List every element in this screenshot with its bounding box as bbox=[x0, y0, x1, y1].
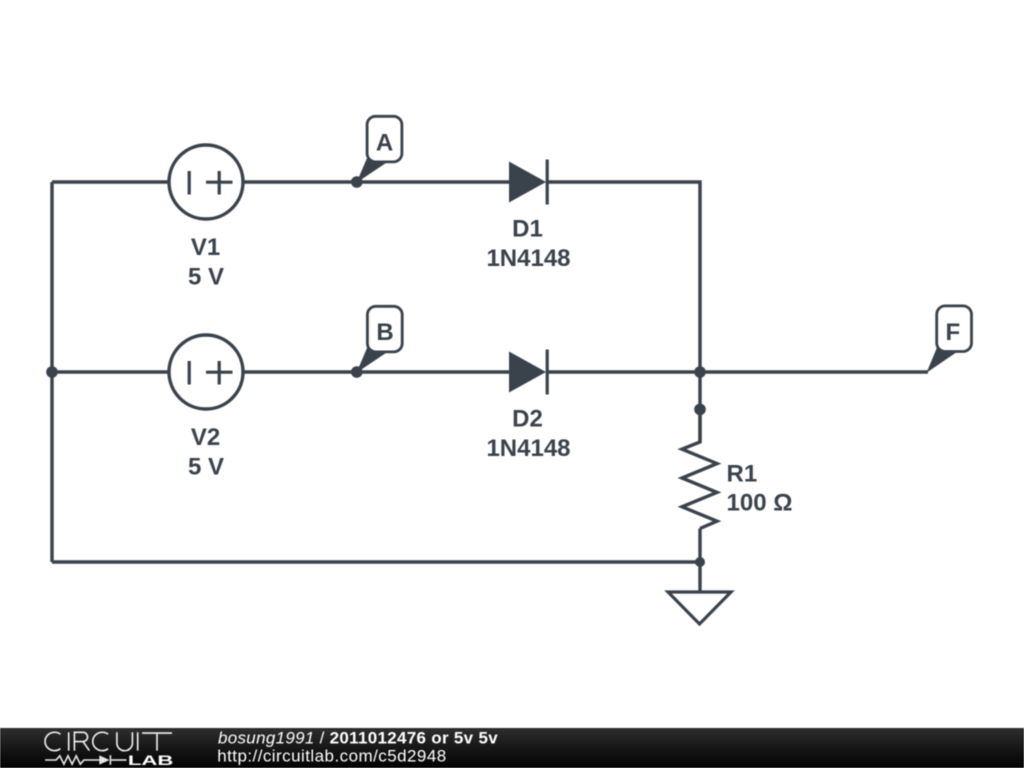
node A flag bbox=[357, 116, 402, 183]
wire row1 left segment bbox=[52, 180, 169, 183]
junction dot bottom rail bbox=[695, 557, 705, 567]
label D2 bbox=[486, 406, 570, 462]
ground bbox=[668, 592, 731, 624]
svg-text:100 Ω: 100 Ω bbox=[727, 489, 793, 516]
label R1 bbox=[727, 461, 793, 517]
wire bottom rail bbox=[52, 560, 700, 563]
wire row1 D1-to-corner and right rail down bbox=[547, 182, 700, 442]
svg-text:R1: R1 bbox=[727, 461, 758, 488]
wire row2 left segment bbox=[52, 370, 169, 373]
svg-text:5 V: 5 V bbox=[188, 454, 224, 481]
svg-text:A: A bbox=[376, 130, 393, 157]
svg-text:1N4148: 1N4148 bbox=[486, 435, 570, 462]
logo resistor-diode glyph bbox=[45, 755, 126, 765]
wire resistor bottom lead bbox=[698, 529, 701, 563]
label D1 bbox=[486, 216, 570, 272]
label V2 value bbox=[188, 424, 224, 480]
node B junction dot bbox=[351, 366, 363, 378]
node B flag bbox=[357, 306, 403, 373]
svg-text:V1: V1 bbox=[191, 234, 220, 261]
svg-text:1N4148: 1N4148 bbox=[486, 245, 570, 272]
svg-text:LAB: LAB bbox=[128, 753, 174, 768]
svg-text:5 V: 5 V bbox=[188, 264, 224, 291]
svg-text:F: F bbox=[945, 319, 960, 346]
resistor R1 bbox=[682, 409, 717, 528]
junction dot left rail row2 bbox=[46, 366, 58, 378]
footer bar bbox=[0, 728, 1024, 768]
wire row2 D2-to-F bbox=[547, 370, 928, 373]
svg-text:http://circuitlab.com/c5d2948: http://circuitlab.com/c5d2948 bbox=[217, 747, 446, 766]
wire row2 V2-to-D2 bbox=[243, 370, 510, 373]
svg-text:B: B bbox=[376, 319, 393, 346]
svg-text:D1: D1 bbox=[512, 216, 543, 243]
junction dot resistor top terminal bbox=[694, 404, 706, 416]
node A junction dot bbox=[351, 176, 363, 188]
svg-text:bosung1991 / 2011012476 or 5v: bosung1991 / 2011012476 or 5v 5v bbox=[218, 729, 498, 748]
wire ground stem bbox=[698, 562, 701, 592]
wire left rail bbox=[50, 182, 53, 562]
diode D1 bbox=[509, 160, 547, 205]
node F flag bbox=[927, 306, 972, 373]
voltage source V2 bbox=[169, 335, 243, 409]
label V1 value bbox=[188, 234, 224, 290]
wire row1 V1-to-D1 bbox=[243, 180, 510, 183]
junction dot right rail row2 bbox=[694, 366, 706, 378]
svg-text:V2: V2 bbox=[191, 424, 220, 451]
voltage source V1 bbox=[169, 145, 243, 219]
diode D2 bbox=[509, 350, 547, 395]
logo CIRCUIT lettering bbox=[45, 732, 172, 750]
svg-text:D2: D2 bbox=[512, 406, 543, 433]
